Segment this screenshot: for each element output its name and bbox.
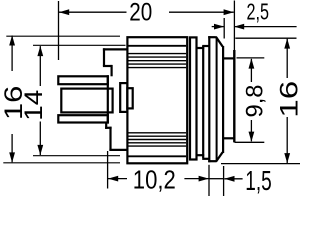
svg-text:1,5: 1,5 bbox=[245, 165, 272, 196]
svg-text:20: 20 bbox=[129, 0, 152, 26]
svg-text:9,8: 9,8 bbox=[242, 85, 269, 118]
svg-text:2,5: 2,5 bbox=[247, 0, 270, 24]
svg-text:10,2: 10,2 bbox=[133, 164, 176, 194]
svg-text:14: 14 bbox=[20, 90, 48, 121]
svg-text:16: 16 bbox=[276, 81, 300, 118]
